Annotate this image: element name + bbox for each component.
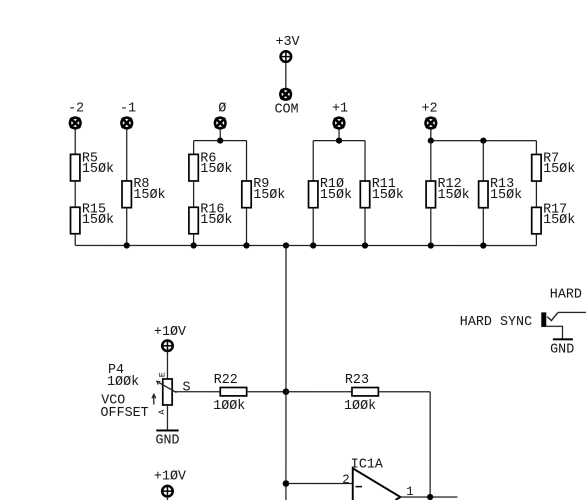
junction (243, 242, 249, 248)
terminal +1 (334, 118, 345, 129)
junction (362, 242, 368, 248)
wire (166, 405, 168, 431)
junction (310, 242, 316, 248)
svg-text:1ØØk: 1ØØk (213, 399, 245, 414)
junction (191, 242, 197, 248)
svg-text:15Øk: 15Øk (543, 162, 575, 177)
svg-text:-2: -2 (68, 102, 84, 117)
node op-amp input junction (283, 480, 290, 487)
node +1-bus junction (336, 138, 342, 144)
node 0-bus junction (217, 137, 223, 143)
resistor R22 (213, 373, 247, 414)
svg-text:15Øk: 15Øk (133, 188, 165, 203)
wire (193, 141, 195, 155)
power symbol +10V (162, 340, 173, 351)
wire (246, 141, 248, 181)
terminal -2 (70, 118, 81, 129)
wire (193, 234, 195, 246)
node R13 top junction (480, 138, 486, 144)
svg-text:COM: COM (274, 102, 298, 117)
wire (74, 181, 76, 207)
wire (535, 141, 537, 155)
connector jack hard sync (541, 312, 558, 327)
svg-text:+3V: +3V (275, 35, 299, 50)
wire (431, 140, 537, 142)
wire (166, 497, 168, 500)
junction (124, 242, 130, 248)
wire tip (558, 311, 586, 313)
wire (219, 129, 221, 140)
svg-text:R23: R23 (345, 373, 369, 388)
svg-text:15Øk: 15Øk (372, 188, 404, 203)
svg-text:E: E (157, 372, 167, 377)
svg-text:+1ØV: +1ØV (154, 469, 186, 484)
node R22/R23 junction (283, 388, 290, 395)
wire output (400, 496, 457, 498)
terminal +2 (426, 118, 437, 129)
wire sleeve (546, 326, 562, 339)
wire (286, 391, 352, 393)
wire (247, 391, 286, 393)
svg-text:15Øk: 15Øk (82, 213, 114, 228)
svg-text:+1: +1 (332, 102, 348, 117)
wire (126, 129, 128, 181)
resistor R17 (532, 202, 576, 233)
wire (482, 208, 484, 246)
junction (428, 242, 434, 248)
wire (313, 140, 365, 142)
resistor R8 (122, 177, 166, 208)
wire (74, 234, 76, 246)
terminal COM (280, 89, 291, 100)
svg-text:15Øk: 15Øk (253, 188, 285, 203)
wire (430, 130, 432, 141)
svg-text:HARD SYNC: HARD SYNC (460, 315, 532, 330)
wire (535, 181, 537, 207)
wire (285, 62, 287, 89)
svg-text:+2: +2 (421, 102, 437, 117)
resistor R10 (309, 177, 353, 208)
wire feedback (379, 391, 430, 393)
svg-text:IC1A: IC1A (351, 458, 384, 473)
svg-text:S: S (182, 381, 190, 396)
resistor R5 (71, 151, 115, 181)
wire (364, 141, 366, 181)
wire (126, 208, 128, 246)
wire (166, 351, 168, 379)
svg-text:15Øk: 15Øk (543, 213, 575, 228)
svg-text:+1ØV: +1ØV (154, 325, 186, 340)
wire main vertical bus (285, 245, 287, 500)
node main bus junction (283, 242, 289, 248)
node +2-bus junction (428, 138, 434, 144)
svg-text:15Øk: 15Øk (200, 213, 232, 228)
svg-text:HARD: HARD (550, 288, 582, 303)
resistor R15 (71, 202, 115, 233)
wire (246, 208, 248, 246)
resistor R11 (360, 177, 404, 208)
wire (364, 208, 366, 246)
wire summing bus (75, 244, 536, 246)
svg-text:1ØØk: 1ØØk (344, 399, 376, 414)
resistor R16 (189, 202, 233, 233)
terminal -1 (121, 118, 132, 129)
terminal 0 (215, 118, 226, 129)
wire (74, 129, 76, 154)
svg-text:2: 2 (342, 473, 350, 487)
svg-text:OFFSET: OFFSET (100, 406, 148, 421)
resistor R6 (189, 151, 233, 181)
wire (430, 141, 432, 181)
wire (175, 391, 220, 393)
wire (194, 140, 247, 142)
svg-text:1ØØk: 1ØØk (107, 375, 139, 390)
wire (312, 141, 314, 181)
wire (535, 234, 537, 246)
power symbol +10V (bottom) (162, 486, 173, 497)
svg-text:GND: GND (155, 434, 179, 449)
svg-text:15Øk: 15Øk (490, 188, 522, 203)
svg-text:15Øk: 15Øk (320, 188, 352, 203)
power symbol +3V (281, 51, 292, 62)
resistor R9 (242, 177, 286, 208)
resistor R7 (532, 151, 576, 181)
svg-text:R22: R22 (214, 373, 238, 388)
wire (482, 141, 484, 181)
svg-text:GND: GND (550, 343, 574, 358)
svg-text:A: A (157, 409, 167, 415)
junction (480, 242, 486, 248)
wire feedback vertical (429, 392, 431, 497)
ground GND (155, 430, 179, 448)
resistor R13 (479, 177, 523, 208)
ground GND jack (550, 339, 574, 357)
svg-text:15Øk: 15Øk (200, 162, 232, 177)
svg-text:-1: -1 (120, 102, 136, 117)
node output junction (427, 494, 433, 500)
wire (430, 208, 432, 246)
op-amp IC1A (351, 458, 401, 500)
wire (338, 130, 340, 141)
wire (312, 208, 314, 246)
svg-text:15Øk: 15Øk (438, 188, 470, 203)
wire inverting input (286, 482, 353, 484)
wire (193, 181, 195, 207)
potentiometer P4 (152, 379, 177, 405)
resistor R12 (426, 177, 470, 208)
svg-text:Ø: Ø (218, 102, 226, 117)
resistor R23 (344, 373, 378, 414)
svg-text:15Øk: 15Øk (82, 162, 114, 177)
